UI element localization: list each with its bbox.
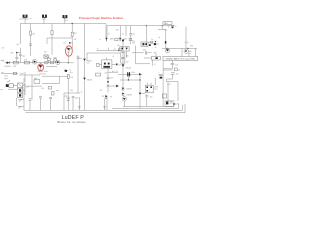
wire second rail y25.7 [107, 25, 175, 26]
svg-text:78L0: 78L0 [164, 23, 168, 25]
svg-text:+9V: +9V [10, 53, 14, 55]
svg-text:osc: osc [47, 57, 50, 59]
wire x135.5 [136, 46, 152, 64]
wire y80 [120, 74, 140, 80]
transistor Q6 [165, 48, 169, 52]
svg-text:100n: 100n [131, 72, 135, 74]
annotation ellipse 2 (red) [38, 64, 44, 71]
svg-text:4558: 4558 [154, 86, 158, 88]
svg-text:(all 4): (all 4) [185, 42, 189, 44]
svg-text:dual: dual [154, 88, 158, 90]
cluster y42 [116, 30, 167, 46]
svg-text:1u: 1u [71, 43, 73, 45]
svg-text:2u2: 2u2 [79, 58, 82, 60]
svg-text:Cf: Cf [112, 56, 114, 58]
svg-text:10n: 10n [150, 96, 153, 98]
svg-text:3k3: 3k3 [44, 52, 47, 54]
node +9V [10, 52, 21, 55]
svg-text:n: n [158, 73, 159, 75]
wire jack to T1 [13, 85, 17, 87]
ground sym x104.6 [103, 99, 106, 110]
svg-text:1N4001: 1N4001 [86, 60, 92, 62]
svg-text:TUNE ALL BIAS TO Pi of source: TUNE ALL BIAS TO Pi of source PGMs [165, 58, 195, 61]
svg-text:4u7: 4u7 [110, 77, 113, 79]
wire right block [167, 74, 178, 101]
svg-text:2N5089: 2N5089 [126, 94, 132, 96]
capacitor C3 [107, 68, 114, 81]
svg-text:in: in [100, 39, 101, 41]
svg-text:1k: 1k [122, 34, 124, 36]
wire x16.5 [16, 98, 18, 106]
battery clip BT3 [63, 15, 69, 22]
svg-text:10k: 10k [70, 90, 73, 92]
svg-text:C9: C9 [114, 49, 116, 51]
svg-text:vol: vol [27, 86, 30, 88]
wire right top rail [125, 26, 127, 36]
svg-text:sw: sw [157, 44, 160, 46]
feedback rail 3 [123, 104, 174, 106]
capacitor C16 [72, 96, 79, 110]
svg-text:CLK: CLK [118, 64, 122, 66]
ground rail 2 [26, 104, 186, 113]
capacitor C2 [19, 48, 25, 63]
svg-text:4k7: 4k7 [112, 71, 115, 73]
cluster logic row [100, 37, 132, 41]
resistor R4 [24, 59, 29, 63]
diode D1 [4, 61, 10, 68]
svg-text:10k: 10k [41, 88, 44, 90]
wire y89 [8, 88, 18, 90]
component box M2 [53, 57, 57, 62]
svg-text:2k2: 2k2 [74, 33, 77, 35]
wire left drop [19, 24, 21, 45]
component box M1 [47, 57, 51, 63]
svg-text:4069: 4069 [110, 39, 114, 41]
svg-text:2N: 2N [68, 52, 70, 54]
svg-text:+: + [169, 73, 170, 75]
svg-text:4u7: 4u7 [16, 44, 19, 46]
wire x146.4 [145, 26, 147, 43]
svg-text:10k: 10k [126, 56, 129, 58]
transistor Q3 (circled) [39, 63, 43, 71]
resistor R11 [45, 61, 48, 63]
svg-text:out (9V) batt: out (9V) batt [19, 18, 29, 21]
svg-text:in B: in B [1, 47, 4, 49]
wire x162.2 stub [161, 26, 163, 30]
svg-text:1N4148: 1N4148 [125, 68, 131, 70]
svg-text:2N39: 2N39 [188, 51, 192, 53]
capacitor C1 [15, 53, 18, 63]
wire right verticals [182, 48, 195, 56]
wire drop x84.5 [84, 24, 86, 59]
wire mid-left bus [5, 62, 46, 64]
wire x78 [77, 55, 83, 93]
svg-text:x1: x1 [97, 48, 99, 50]
svg-text:o2: o2 [81, 92, 83, 94]
capacitor C4 [129, 26, 134, 44]
wire x165.8 drop [158, 30, 166, 49]
svg-text:10u: 10u [22, 55, 25, 57]
crystal X1 [44, 55, 48, 58]
wire out bus [1, 73, 18, 75]
svg-text:100n: 100n [143, 49, 147, 51]
wire x163.1 [163, 61, 172, 107]
label battery tie-in [38, 70, 48, 75]
svg-text:sum: sum [56, 90, 60, 92]
svg-text:Re1: Re1 [70, 72, 73, 74]
wire y53 [86, 53, 120, 64]
ground rail 1 [24, 105, 183, 110]
wire x186 [185, 27, 187, 49]
svg-text:4k7: 4k7 [13, 66, 16, 68]
transistor Q5 [100, 90, 112, 110]
IC U1 [97, 58, 123, 75]
svg-text:Resistor: Resistor [40, 73, 47, 76]
wire x107 [107, 26, 110, 37]
box small [162, 94, 166, 98]
transistor Q14 [56, 60, 60, 64]
svg-text:100n: 100n [66, 97, 70, 99]
resistor R8 [96, 71, 118, 76]
transistor Q2 [32, 60, 37, 65]
capacitor C7 [158, 73, 162, 79]
wire x140 [139, 74, 140, 92]
transistor Q1 (circled) [63, 42, 73, 63]
svg-text:100n: 100n [75, 98, 79, 100]
svg-text:1N4148: 1N4148 [4, 66, 10, 68]
wire drop x106 [105, 24, 107, 40]
wire y86 left [25, 85, 42, 87]
pot P2 [18, 106, 24, 109]
resistor R3 [13, 61, 18, 68]
pot P1 [18, 99, 24, 102]
wire y86 diode D4 [107, 85, 119, 93]
svg-text:Proposed Sugar Machine Iterati: Proposed Sugar Machine Iteration [79, 16, 124, 20]
wire x52 [51, 24, 53, 55]
diode chain x123 [120, 39, 131, 80]
wire BT2 stub [43, 18, 45, 24]
svg-text:10n: 10n [117, 45, 120, 47]
svg-text:2N5089: 2N5089 [126, 89, 132, 91]
svg-text:C17: C17 [63, 43, 66, 45]
capacitor C11 [145, 94, 152, 106]
connector stub left [1, 60, 3, 62]
component box K1 [152, 53, 161, 60]
svg-text:10k: 10k [24, 59, 27, 61]
resistor R10 [34, 77, 40, 83]
svg-text:2k2: 2k2 [132, 43, 135, 45]
wire mid bus right [61, 62, 74, 64]
transformer T1 [13, 83, 25, 98]
svg-text:1k: 1k [108, 34, 110, 36]
ground sym x79.3 [78, 97, 81, 110]
svg-text:47u: 47u [176, 74, 179, 76]
resistor R2 [71, 23, 76, 46]
wire BT3 stub [64, 18, 66, 23]
svg-text:4k7: 4k7 [100, 90, 103, 92]
wire left drop corner [23, 78, 25, 110]
wire x25 [24, 72, 26, 82]
wire x155.2 [154, 78, 156, 85]
svg-text:2N: 2N [102, 96, 105, 98]
capacitor C13 [39, 97, 42, 111]
transistor Q11 [122, 93, 132, 97]
wire y93 [64, 93, 80, 110]
svg-text:4k7: 4k7 [126, 62, 129, 64]
wire top rail [20, 23, 106, 25]
svg-text:5V6: 5V6 [190, 46, 193, 48]
capacitor C6 [171, 61, 178, 69]
filter box F1 [1, 71, 17, 75]
wire mid bus step [46, 62, 61, 64]
resistor R9 [175, 68, 181, 72]
output cap cluster [165, 100, 179, 107]
capacitor C12 [29, 99, 32, 111]
wire mid bus lower [46, 65, 57, 67]
resistor R7 [67, 74, 73, 110]
diode D5 [107, 81, 109, 86]
svg-text:1k lin: 1k lin [4, 76, 8, 78]
wire lower bus out [42, 75, 68, 77]
annotation ellipse 1 (red) [66, 46, 73, 56]
stub below K1 [153, 60, 156, 66]
svg-text:0.5k: 0.5k [167, 84, 170, 86]
wire y50.4 [97, 48, 122, 52]
svg-text:10k: 10k [70, 77, 73, 79]
wire y52.8 [132, 52, 144, 54]
transistor Q7 [184, 49, 192, 55]
capacitor C10 [127, 72, 141, 76]
svg-text:+9: +9 [175, 26, 177, 28]
svg-text:1M: 1M [74, 39, 77, 41]
battery clip BT2 [42, 15, 47, 21]
input jack J2 [1, 84, 14, 91]
note box [163, 56, 198, 60]
resistor R12 [50, 61, 53, 63]
svg-text:04 b: 04 b [188, 53, 191, 55]
svg-text:sw: sw [30, 18, 33, 20]
component small x52 [41, 86, 82, 95]
wire x32 [31, 75, 33, 100]
svg-text:C2: C2 [116, 71, 118, 73]
svg-text:1k: 1k [69, 70, 71, 72]
wire corner x59.5 [42, 76, 60, 83]
capacitor C14 [49, 97, 52, 110]
wire y74.4 [118, 74, 142, 75]
svg-text:bias: bias [132, 41, 135, 43]
svg-text:555: 555 [105, 72, 108, 74]
svg-text:10u: 10u [175, 65, 178, 67]
svg-text:Blame Fa, as always: Blame Fa, as always [58, 120, 87, 124]
left arrow mark [7, 80, 10, 82]
wire y75 [19, 73, 40, 75]
left column labels [4, 76, 8, 80]
wire branch y38 [47, 38, 72, 44]
regulator U2 [163, 22, 177, 32]
svg-text:39: 39 [110, 97, 112, 99]
wire right h-rail y48.4 [162, 48, 197, 49]
svg-text:1u: 1u [155, 47, 157, 49]
diode D3 [83, 61, 92, 110]
transistor Q4 [65, 70, 73, 75]
svg-text:1n: 1n [151, 39, 153, 41]
wire BT1 stub [24, 18, 26, 24]
feedback rail 4 [112, 103, 179, 108]
svg-text:47k: 47k [32, 33, 35, 35]
svg-text:+5C: +5C [86, 62, 90, 64]
wire x120.7 [121, 26, 124, 37]
transistor Q10 [122, 80, 132, 91]
capacitor C8 [169, 73, 178, 76]
svg-text:pot: pot [1, 88, 4, 91]
svg-text:Vdd: Vdd [116, 30, 119, 32]
diode D2 [83, 59, 92, 63]
battery clip BT1 [19, 15, 29, 21]
svg-text:ref: ref [158, 37, 160, 39]
svg-text:1k: 1k [178, 70, 180, 72]
svg-text:+1: +1 [154, 64, 156, 66]
IC U3 [145, 83, 158, 93]
resistor R1 [29, 24, 35, 57]
capacitor C15 [66, 97, 70, 100]
transistor Q12 [139, 92, 146, 108]
svg-text:1N4148: 1N4148 [86, 79, 92, 81]
transistor Q13 [122, 97, 126, 107]
relay box K2 [141, 42, 148, 46]
capacitor C5 [143, 49, 152, 54]
